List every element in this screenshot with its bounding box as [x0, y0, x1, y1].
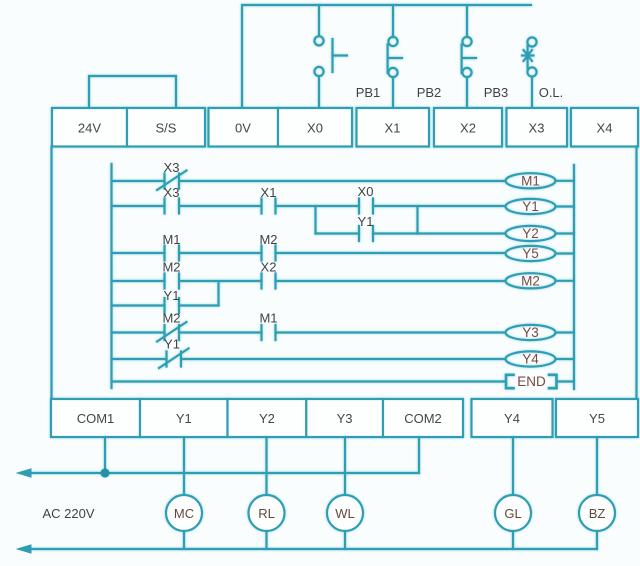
wire node B to coil Y2 [418, 232, 506, 234]
contactor coil MC [166, 495, 202, 531]
wire rung4 to coil M2 [276, 280, 506, 282]
wire PB3 to X2 [466, 77, 468, 108]
svg-text:M1: M1 [162, 232, 180, 247]
wire Y5 to BZ [596, 437, 598, 495]
contact X3 rung2 [165, 199, 180, 214]
PLC enclosure left edge [50, 147, 52, 400]
wire coil Y3 to right rail [556, 331, 575, 333]
wire END rung [112, 380, 507, 382]
ladder right rail [573, 165, 575, 389]
svg-text:M2: M2 [521, 274, 540, 289]
lamp RL [249, 495, 285, 531]
svg-text:M2: M2 [259, 232, 277, 247]
wire Y1 to MC [183, 437, 185, 495]
svg-text:Y1: Y1 [358, 214, 374, 229]
svg-text:X3: X3 [529, 121, 545, 136]
wire rung5 left [112, 331, 165, 333]
wire branch Y1 to node C [179, 304, 219, 306]
svg-text:X2: X2 [261, 260, 277, 275]
svg-text:Y5: Y5 [589, 411, 605, 426]
svg-text:PB2: PB2 [417, 85, 442, 100]
wire PB3 top [466, 5, 468, 37]
terminal COM2 [383, 399, 463, 437]
terminal Y3 out [306, 399, 383, 437]
pushbutton PB2 [388, 37, 402, 77]
wire coil Y2 to right rail [556, 232, 575, 234]
svg-text:Y4: Y4 [504, 411, 520, 426]
wire PB1 top [318, 5, 320, 36]
wire rung3 to coil Y5 [276, 252, 506, 254]
terminal COM1 [51, 399, 140, 437]
svg-text:WL: WL [335, 506, 355, 521]
wire PB2 top [392, 5, 394, 37]
svg-text:COM2: COM2 [404, 411, 442, 426]
svg-text:M2: M2 [162, 311, 180, 326]
coil M2 [506, 273, 556, 288]
terminal Y5 out [556, 399, 638, 437]
wire COM2 riser [418, 437, 420, 473]
wire rung4 mid with node C [179, 280, 262, 282]
wire PB1 to X0 [318, 76, 320, 108]
terminal 24V [52, 108, 127, 147]
svg-text:Y3: Y3 [522, 325, 539, 340]
wire coil Y4 to right rail [556, 358, 575, 360]
svg-text:PB1: PB1 [356, 85, 381, 100]
wire coil M1 to right rail [556, 180, 575, 182]
coil Y1 [506, 199, 556, 214]
contact M1 rung3 [165, 246, 180, 261]
svg-text:Y1: Y1 [164, 288, 180, 303]
wire branch Y1 right to node B [373, 232, 418, 234]
pushbutton PB3 [462, 37, 476, 77]
svg-text:Y5: Y5 [522, 246, 539, 261]
svg-text:X4: X4 [597, 121, 613, 136]
wire rung2 mid2 with node A [276, 205, 360, 207]
wire coil Y1 to right rail [556, 205, 575, 207]
svg-text:END: END [517, 374, 546, 389]
top supply rail wire from 0V [242, 5, 531, 108]
wire RL down [265, 531, 267, 549]
svg-text:Y2: Y2 [522, 226, 539, 241]
jumper wire 24V to S/S [89, 76, 176, 108]
ladder left rail [110, 164, 112, 388]
contact M1 rung5 [262, 325, 276, 340]
svg-text:Y1: Y1 [176, 411, 192, 426]
wire rung3 left [112, 252, 165, 254]
arrowhead N [16, 544, 32, 554]
terminal X1 [357, 108, 430, 147]
svg-text:M2: M2 [162, 260, 180, 275]
coil Y3 [506, 325, 556, 340]
terminal Y4 out [472, 399, 553, 437]
wire Y3 to WL [344, 437, 346, 495]
terminal Y2 out [228, 399, 307, 437]
overload contact O.L. [522, 37, 537, 76]
terminal X4 [571, 108, 638, 147]
wire COM1 down [104, 437, 106, 473]
lamp GL [495, 495, 531, 531]
wire rung6 to coil Y4 [181, 358, 506, 360]
contact Y1 branch rung2 [359, 226, 373, 241]
svg-text:Y1: Y1 [164, 337, 180, 352]
node junction dot COM1/L1 [100, 468, 109, 477]
wire coil Y5 to right rail [556, 252, 575, 254]
wire END to right rail [557, 380, 575, 382]
contact M2 NC rung5 [157, 322, 187, 342]
wire rung2 mid1 [179, 205, 262, 207]
coil Y2 [506, 226, 556, 241]
svg-text:X0: X0 [307, 121, 323, 136]
svg-text:AC 220V: AC 220V [42, 506, 94, 521]
wire WL down [344, 531, 346, 549]
terminal X0 [278, 108, 352, 147]
svg-text:X1: X1 [385, 121, 401, 136]
wire rung2 to coil Y1 [373, 205, 506, 207]
contact M2 rung3 [262, 246, 276, 261]
svg-text:0V: 0V [235, 121, 251, 136]
svg-text:X2: X2 [460, 121, 476, 136]
coil Y5 [506, 246, 556, 261]
svg-text:COM1: COM1 [77, 411, 115, 426]
terminal X2 [434, 108, 502, 147]
wire Y4 to GL [512, 437, 514, 495]
svg-text:X0: X0 [358, 184, 374, 199]
wire node B up to rung2 [416, 206, 418, 234]
svg-text:M1: M1 [259, 311, 277, 326]
wire BZ down to neutral [596, 531, 598, 549]
svg-text:Y4: Y4 [522, 352, 539, 367]
wire rung5 to coil Y3 [276, 331, 506, 333]
wire rung5 mid [179, 331, 262, 333]
svg-text:Y2: Y2 [259, 411, 275, 426]
wire branch Y1 rung4 left [112, 304, 165, 306]
svg-text:S/S: S/S [156, 121, 177, 136]
pushbutton PB1 [314, 36, 347, 76]
terminal X3 [507, 108, 568, 147]
terminal Y1 out [140, 399, 228, 437]
wire rung2 left [112, 205, 165, 207]
coil Y4 [506, 351, 556, 366]
contact X2 rung4 [262, 274, 276, 289]
wire rung1 left [112, 180, 165, 182]
wire rung6 left [112, 358, 167, 360]
wire node C riser [217, 281, 219, 306]
svg-text:MC: MC [174, 506, 194, 521]
lamp WL [327, 495, 363, 531]
svg-text:O.L.: O.L. [539, 85, 564, 100]
svg-text:Y1: Y1 [522, 199, 539, 214]
wire rung1 to coil M1 [179, 180, 506, 182]
wire MC down [183, 531, 185, 549]
END instruction left bracket [506, 375, 514, 388]
END instruction right bracket [549, 375, 557, 388]
coil M1 [506, 173, 556, 188]
svg-text:X1: X1 [261, 185, 277, 200]
svg-text:PB3: PB3 [484, 85, 509, 100]
contact Y1 NC rung6 [159, 349, 189, 369]
svg-text:X3: X3 [164, 160, 180, 175]
AC neutral line N [28, 548, 597, 550]
svg-text:BZ: BZ [589, 506, 606, 521]
buzzer BZ [579, 495, 615, 531]
AC phase line L1 [28, 472, 419, 474]
terminal 0V [209, 108, 279, 147]
contact X3 NC rung1 [157, 171, 187, 191]
contact Y1 branch rung4 [165, 298, 180, 313]
contact M2 rung4 [165, 274, 180, 289]
wire rung3 mid [179, 252, 262, 254]
contact X0 rung2 [359, 199, 373, 214]
svg-text:RL: RL [258, 506, 275, 521]
wire node A down to branch [314, 206, 316, 234]
svg-text:Y3: Y3 [337, 411, 353, 426]
wire Y2 to RL [265, 437, 267, 495]
wire coil M2 to right rail [556, 280, 575, 282]
wire PB2 to X1 [392, 77, 394, 108]
svg-text:X3: X3 [164, 185, 180, 200]
contact X1 rung2 [262, 199, 276, 214]
terminal S/S [127, 108, 205, 147]
wire GL down [512, 531, 514, 549]
svg-text:GL: GL [504, 506, 521, 521]
svg-text:M1: M1 [521, 174, 540, 189]
wire O.L. to X3 [531, 77, 533, 109]
svg-text:24V: 24V [78, 121, 101, 136]
arrowhead L1 [16, 468, 32, 478]
PLC enclosure right edge [635, 147, 637, 400]
wire branch Y1 left [316, 232, 360, 234]
wire rung4 left [112, 280, 165, 282]
